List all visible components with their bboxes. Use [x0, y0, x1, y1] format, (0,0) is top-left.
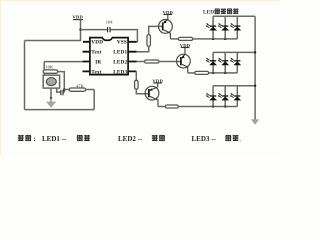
wire: group2 branch 3: [236, 52, 238, 73]
wire: Q2 collector to R6: [188, 72, 195, 74]
resistor R7: [165, 105, 178, 108]
svg-text:IR: IR: [95, 59, 101, 65]
power VDD3 bar: [181, 47, 190, 49]
transistor Q1 base bar: [162, 23, 164, 31]
wire: group3 branch 2: [224, 86, 226, 107]
resistor 10K: [43, 70, 57, 73]
capacitor C2 plates: [61, 90, 63, 95]
wire: group1 branch 2: [224, 16, 226, 39]
wire: group1 bottom rail: [193, 38, 238, 40]
LED D4: [206, 58, 217, 65]
svg-text:LED2 --: LED2 --: [118, 135, 143, 143]
wire: group3 top rail: [213, 85, 255, 87]
IC U1 body with notch: [90, 38, 128, 75]
transistor Q2 base bar: [180, 57, 182, 65]
LED D7: [206, 93, 217, 100]
wire: down to mic box: [43, 62, 45, 76]
power VDD4 bar: [153, 82, 162, 84]
IC U1 pin labels: [91, 40, 127, 76]
svg-text:Text: Text: [91, 69, 101, 75]
microphone box: [43, 75, 59, 88]
capacitor C1 104 plates: [108, 27, 110, 32]
svg-text:Text: Text: [91, 50, 101, 56]
wire: cap run right segment down to VSS pin: [110, 30, 137, 42]
ground arrow (right rail): [251, 119, 259, 124]
transistor Q2 collector: [181, 64, 188, 73]
junction dot VDD1/cap: [79, 28, 81, 30]
svg-text:LED3 --: LED3 --: [192, 135, 217, 143]
wire: mic lead 1: [50, 88, 52, 98]
wire: outer loop left vertical: [24, 41, 26, 110]
power VDD2 bar: [164, 14, 173, 16]
wire: group3 bottom rail: [178, 106, 237, 108]
resistor R5: [145, 60, 160, 63]
wire: group1 top rail: [213, 15, 255, 17]
junction dot mic lead: [50, 97, 52, 99]
wire: Q3 collector to R7: [158, 106, 165, 108]
power VDD1 bar: [73, 19, 83, 21]
LED D2: [218, 23, 229, 30]
svg-text:VDD: VDD: [73, 15, 84, 20]
ground arrow (mic): [50, 98, 52, 102]
svg-text::: :: [34, 135, 36, 143]
wire: group3 branch 3: [236, 86, 238, 107]
microphone MIC element: [46, 78, 56, 86]
transistor Q2 emitter: [181, 48, 185, 59]
svg-text:10K: 10K: [45, 65, 54, 70]
LED D6: [230, 58, 241, 65]
transistor Q2 circle: [177, 54, 191, 68]
wire: R1 top to Q1 base: [149, 26, 163, 34]
wire: cap run left segment: [81, 29, 108, 31]
wire: group2 top rail: [213, 51, 255, 53]
LED D8: [218, 93, 229, 100]
resistor R6: [195, 71, 209, 74]
wire: group2 branch 2: [224, 52, 226, 73]
wire: group1 branch 1: [212, 16, 214, 39]
junction dots group1 rail: [212, 38, 214, 40]
transistor Q1 circle: [159, 20, 173, 34]
svg-text:104: 104: [106, 19, 114, 24]
junction dot cap/10K/47K: [63, 88, 65, 90]
IC U1 right pin stubs: [128, 42, 137, 72]
svg-text:LED1 --: LED1 --: [42, 135, 67, 143]
wire: Q1 collector to R2: [170, 38, 178, 40]
transistor Q1 emitter: [163, 15, 168, 24]
wire: R3 bottom to Q3 base: [136, 89, 149, 94]
wire: outer loop top horizontal to IC pin VDD: [25, 40, 81, 42]
svg-text:VDD: VDD: [91, 40, 103, 46]
wire: right common rail: [254, 16, 256, 119]
wire: IR pin to left: [44, 61, 82, 63]
svg-text:VSS: VSS: [117, 40, 127, 46]
wire: LED2 pin to R5: [137, 61, 145, 63]
transistor Q3 collector: [149, 96, 158, 107]
svg-text:LED: LED: [203, 10, 214, 16]
resistor R3 (vertical): [135, 80, 138, 89]
LED D1: [206, 23, 217, 30]
note: LED is negative output: [203, 8, 239, 15]
wire: R5 to Q2 base: [159, 61, 181, 63]
LED D3: [230, 23, 241, 30]
transistor Q3 circle: [145, 86, 159, 100]
transistor Q1 collector: [163, 30, 170, 39]
LED D5: [218, 58, 229, 65]
junction dot top rail / right rail: [254, 51, 256, 53]
resistor R1 (vertical): [147, 35, 150, 47]
resistor R2: [178, 37, 193, 40]
power VDD1 label: [73, 15, 84, 20]
junction dots group2 rail: [212, 72, 214, 74]
wire: mic lead 2 to coupling cap: [57, 88, 61, 92]
svg-text:LED3: LED3: [113, 69, 127, 75]
wire: group2 branch 1: [212, 52, 214, 73]
wire: LED1 pin to base resistor R1: [137, 46, 149, 51]
wire: loop right vertical x94: [93, 90, 95, 110]
wire: group2 bottom rail: [209, 72, 238, 74]
transistor Q3 base bar: [148, 89, 150, 97]
wire: LED3 pin down to R3: [135, 71, 137, 80]
transistor Q3 emitter: [149, 83, 158, 91]
IC U1 left pin stubs: [83, 42, 91, 72]
wire: 10K right end, corner down to cap junction: [58, 72, 65, 93]
wire: 47K right end to x94: [86, 89, 95, 91]
junction dot top rail3 / right rail: [254, 85, 256, 87]
svg-text:LED2: LED2: [113, 59, 127, 65]
wire: group3 branch 1: [212, 86, 214, 107]
junction dots group3 rail: [212, 105, 214, 107]
wire: cap right plate to junction: [63, 91, 64, 93]
LED D9: [230, 93, 241, 100]
wire: VDD1 down to pin1 row: [80, 20, 82, 41]
caption: 注明: LED1 --蓝灯 LED2 --红灯 LED3 --绿灯: [18, 135, 242, 143]
resistor 47K: [69, 88, 85, 91]
svg-text:LED1: LED1: [113, 50, 127, 56]
wire: outer loop bottom horizontal: [25, 109, 95, 111]
wire: group1 branch 3: [236, 16, 238, 39]
wire: junction to 47K: [64, 89, 69, 91]
